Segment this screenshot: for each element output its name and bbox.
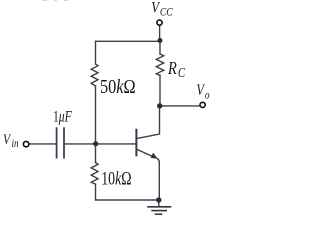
svg-text:in: in bbox=[11, 138, 18, 150]
svg-text:50kΩ: 50kΩ bbox=[100, 76, 136, 98]
svg-text:C: C bbox=[178, 65, 186, 80]
svg-text:CC: CC bbox=[160, 5, 173, 18]
svg-text:o: o bbox=[205, 90, 210, 102]
svg-text:R: R bbox=[167, 57, 177, 78]
svg-text:1μF: 1μF bbox=[53, 108, 72, 125]
svg-text:10kΩ: 10kΩ bbox=[101, 168, 131, 190]
svg-text:V: V bbox=[3, 131, 12, 148]
svg-text:V: V bbox=[196, 82, 205, 100]
